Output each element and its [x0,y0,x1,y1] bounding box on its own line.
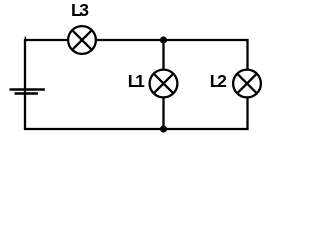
wire: L1 branch upper [162,40,164,69]
wire: left vertical (battery branch) [24,40,26,129]
battery B1 long plate [10,88,45,91]
wire: L1 branch lower [162,98,164,129]
lamp L1 [150,70,178,98]
lamp L3 [68,26,96,54]
wire: L2 branch lower [246,98,248,130]
svg-text:L2: L2 [210,71,227,91]
wire: top from left corner to lamp L3 [24,39,67,41]
junction dot top (node A) [160,36,167,43]
battery B1 short plate [15,92,39,95]
wire: L2 branch upper [246,39,248,69]
wire: top-left corner stub [24,37,26,40]
svg-text:L3: L3 [71,0,89,20]
wire: top from lamp L3 to top-right corner [97,39,248,41]
svg-text:L1: L1 [128,71,145,91]
wire: bottom rail [24,128,248,130]
junction dot bottom (node B) [160,125,167,132]
lamp L2 [233,70,261,98]
